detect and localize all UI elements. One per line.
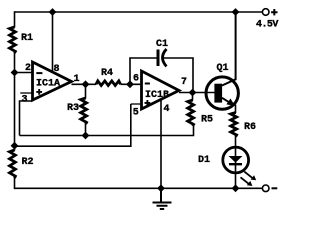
wire : IC1A pin 1 output to R4 [72, 83, 97, 85]
resistor R3 [85, 84, 87, 98]
wire : IC1A pin 3 loop around [20, 101, 33, 136]
resistor R6 [231, 113, 237, 137]
svg-text:5: 5 [133, 108, 139, 119]
svg-text:R1: R1 [21, 33, 33, 44]
node : junction dot R3 bottom [82, 132, 90, 140]
wire : line from left rail to IC1B pin 5 [15, 104, 131, 146]
label minus [272, 187, 278, 189]
wire : C1 right branch down to pin7 node [163, 58, 193, 93]
IC1B minus input marker [145, 83, 150, 85]
wire : C1 left branch up from pin6 [130, 58, 157, 84]
svg-text:C1: C1 [156, 39, 168, 50]
wire : IC1A pin 8 drop [52, 12, 54, 73]
ground symbol [153, 188, 172, 209]
svg-text:Q1: Q1 [217, 63, 229, 74]
D1 light emission arrow 1 [244, 172, 252, 179]
node : junction dot pin1/R3 [82, 80, 90, 88]
IC1A plus input marker [36, 89, 42, 95]
svg-text:2: 2 [25, 63, 31, 74]
svg-text:IC1A: IC1A [36, 79, 60, 90]
wire : top supply rail [15, 11, 263, 13]
Q1 collector [222, 12, 236, 86]
node : junction dot left rail to IC1B pin5 line [11, 142, 19, 150]
svg-text:7: 7 [181, 77, 187, 88]
wire : R4 to IC1B pin 6 [121, 83, 142, 85]
resistor R1 [10, 27, 16, 53]
wire : left rail vertical [14, 11, 16, 189]
pin 5 label box [131, 103, 141, 105]
wire : IC1A pin 2 [15, 72, 33, 74]
resistor R2 [10, 150, 16, 178]
capacitor C1 [157, 50, 160, 67]
svg-text:3: 3 [22, 95, 28, 106]
node : junction dot pin4/ground [157, 184, 165, 192]
node : junction dot top rail to IC1A pin8 [49, 8, 57, 16]
wire : IC1B pin 7 output [179, 92, 216, 94]
svg-text:6: 6 [133, 74, 139, 85]
op-amp IC1B [142, 71, 180, 109]
wire : bottom ground rail [15, 187, 263, 189]
svg-text:R5: R5 [201, 115, 213, 126]
resistor R5 [192, 93, 194, 101]
node : junction dot pin6/C1 [126, 80, 134, 88]
wire : feedback line pin3/R3/R5 bottom [20, 126, 194, 136]
terminal : negative supply [262, 185, 269, 192]
resistor R4 [96, 81, 121, 86]
pin 3 label box [20, 92, 32, 94]
LED D1 circle [223, 147, 249, 173]
D1 cathode bar [229, 163, 242, 165]
svg-text:IC1B: IC1B [145, 90, 169, 101]
node : junction dot pin7/C1/R5 [189, 89, 197, 97]
Q1 emitter with arrow [222, 98, 230, 103]
wire : R6 to D1 to bottom rail [235, 136, 237, 188]
node : junction dot left rail to IC1A pin2 [11, 69, 19, 77]
node : junction dot D1 / bottom rail [232, 184, 240, 192]
wire : IC1B pin 4 drop to ground rail [160, 99, 162, 188]
svg-text:4: 4 [164, 104, 170, 115]
D1 diode triangle [229, 156, 243, 163]
svg-text:4.5V: 4.5V [256, 20, 278, 31]
Q1 base bar [214, 84, 222, 103]
node : junction dot top rail / Q1 collector [232, 8, 240, 16]
IC1B plus input marker [145, 100, 151, 106]
transistor Q1 [206, 77, 238, 109]
svg-text:R4: R4 [101, 68, 113, 79]
svg-text:R2: R2 [22, 157, 34, 168]
IC1A minus input marker [36, 72, 42, 74]
svg-text:1: 1 [74, 74, 80, 85]
svg-text:D1: D1 [198, 155, 210, 166]
label plus [271, 9, 277, 15]
D1 light emission arrow 2 [241, 177, 249, 184]
op-amp IC1A [33, 62, 72, 100]
terminal : +4.5V supply [262, 9, 269, 16]
svg-text:R6: R6 [244, 122, 256, 133]
svg-text:R3: R3 [67, 103, 79, 114]
